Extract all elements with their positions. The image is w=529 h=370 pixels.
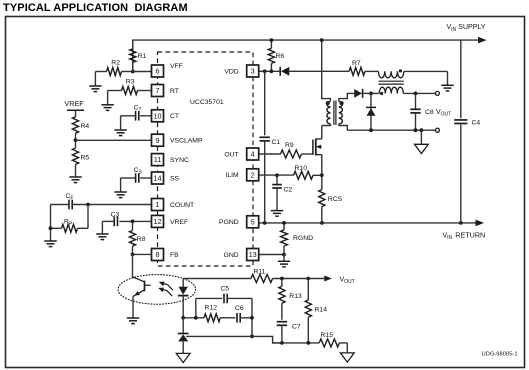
- ground bias winding: [441, 85, 453, 91]
- label R3: [126, 78, 135, 85]
- ground CS: [114, 192, 126, 198]
- resistor R2: [95, 68, 132, 76]
- junction RGND top: [282, 221, 286, 225]
- junction D3 top: [369, 92, 373, 96]
- node pin 3 VDD: [247, 65, 259, 77]
- node pin 5 PGND: [247, 216, 259, 228]
- svg-text:VREF: VREF: [65, 99, 85, 108]
- wire bottom rail: [273, 342, 320, 344]
- capacitor CS: [121, 173, 152, 183]
- node pin 13 GND: [247, 249, 259, 261]
- capacitor C8: [410, 93, 420, 130]
- node pin 4 OUT: [247, 148, 259, 160]
- svg-text:5: 5: [251, 217, 255, 226]
- svg-text:PGND: PGND: [219, 219, 239, 226]
- node pin 10 CT: [152, 110, 164, 122]
- wire drain up: [321, 126, 323, 140]
- resistor R5: [72, 148, 78, 164]
- inductor L1 top winding: [378, 71, 403, 77]
- node pin 6 VFF: [152, 65, 164, 77]
- svg-text:R2: R2: [111, 59, 120, 66]
- junction C1 top: [263, 69, 267, 73]
- label R11: [254, 269, 266, 276]
- capacitor CT: [121, 111, 152, 121]
- svg-text:CT: CT: [134, 104, 142, 113]
- title text: [3, 2, 188, 14]
- junction source/R10: [320, 173, 324, 177]
- node pin 7 RT: [152, 85, 164, 97]
- svg-text:RP: RP: [64, 219, 73, 228]
- inductor L1 core: [378, 81, 403, 84]
- ground C2: [271, 211, 283, 217]
- label R8: [137, 236, 146, 243]
- svg-text:C5: C5: [221, 285, 230, 292]
- svg-text:R5: R5: [81, 155, 90, 162]
- svg-text:CT: CT: [170, 113, 179, 120]
- svg-text:VREF: VREF: [170, 219, 188, 226]
- label CF: [66, 193, 74, 202]
- svg-text:TYPICAL APPLICATION DIAGRAM: TYPICAL APPLICATION DIAGRAM: [3, 2, 188, 14]
- wire R5 down: [75, 164, 77, 177]
- capacitor C4: [454, 40, 467, 223]
- junction C1 bottom: [263, 221, 267, 225]
- svg-text:VIN: VIN: [443, 232, 453, 241]
- junction C5 left: [194, 316, 198, 320]
- svg-text:R11: R11: [254, 269, 266, 276]
- svg-text:R9: R9: [285, 142, 294, 149]
- capacitor C1: [260, 71, 270, 223]
- label RGND: [293, 235, 313, 242]
- label R13: [289, 293, 302, 300]
- resistor R14: [305, 279, 311, 343]
- svg-text:C6: C6: [235, 305, 244, 312]
- inductor L1 dots: [380, 69, 402, 95]
- capacitor C6: [220, 313, 252, 323]
- label R1: [138, 53, 147, 60]
- svg-text:RETURN: RETURN: [455, 230, 485, 239]
- resistor R3: [108, 87, 152, 95]
- U1 label UCC35701: [190, 99, 224, 106]
- svg-text:R12: R12: [205, 305, 218, 312]
- node pin 2 ILIM: [247, 169, 259, 181]
- svg-text:VFF: VFF: [170, 63, 183, 70]
- wire VOUT arrow: [308, 276, 332, 282]
- svg-text:ILIM: ILIM: [225, 172, 239, 179]
- label R4: [81, 123, 90, 130]
- capacitor C7: [277, 322, 287, 343]
- label C7: [292, 324, 301, 331]
- wire top rail VIN supply: [133, 40, 482, 71]
- wire ILIM pin: [259, 174, 294, 176]
- svg-text:RCS: RCS: [328, 196, 343, 203]
- inductor L1 bottom winding: [371, 87, 435, 93]
- transformer T1 core: [334, 101, 336, 125]
- node VOUT+ terminal: [435, 91, 439, 95]
- svg-text:C7: C7: [292, 324, 301, 331]
- wire C3 left down: [101, 221, 103, 234]
- svg-text:10: 10: [153, 111, 161, 120]
- transistor opto phototransistor: [133, 277, 151, 318]
- diode D1: [280, 67, 349, 76]
- resistor R6: [268, 40, 274, 71]
- junction C4 bottom: [459, 221, 463, 225]
- label R7: [352, 60, 361, 67]
- diode opto LED: [178, 279, 189, 318]
- node pin 1 COUNT: [152, 199, 164, 211]
- junction VSCLAMP divider: [74, 138, 78, 142]
- wire secondary bottom: [339, 124, 347, 130]
- opto light arrows: [158, 282, 173, 297]
- ground CT: [114, 130, 126, 136]
- svg-text:R10: R10: [295, 165, 308, 172]
- node VIN SUPPLY arrow: [478, 37, 487, 44]
- junction output gnd: [420, 128, 424, 132]
- junction D3 bottom: [369, 128, 373, 132]
- resistor R15: [319, 339, 347, 347]
- wire RP up to COUNT: [87, 205, 89, 229]
- svg-text:C8: C8: [425, 109, 434, 116]
- node pin 9 VSCLAMP: [152, 134, 164, 146]
- junction primary top rail: [320, 38, 324, 42]
- svg-text:SYNC: SYNC: [170, 157, 189, 164]
- svg-text:14: 14: [153, 174, 161, 183]
- label RP: [64, 219, 73, 228]
- label R10: [295, 165, 308, 172]
- junction RP left: [49, 226, 53, 230]
- label R12: [205, 305, 218, 312]
- svg-text:12: 12: [153, 217, 161, 226]
- label pin OUT: [224, 151, 238, 158]
- capacitor C5: [196, 294, 252, 304]
- svg-text:R13: R13: [289, 293, 302, 300]
- wire primary bottom: [322, 124, 331, 126]
- label pin VREF: [170, 219, 188, 226]
- junction FB/R8/opto: [131, 253, 135, 257]
- svg-text:4: 4: [251, 150, 255, 159]
- svg-text:SUPPLY: SUPPLY: [458, 24, 485, 31]
- diode U3 TL431: [178, 318, 189, 354]
- resistor R13: [279, 279, 285, 320]
- svg-text:R3: R3: [126, 78, 135, 85]
- resistor R1: [130, 40, 136, 71]
- junction C7 bottom: [280, 341, 284, 345]
- wire output bottom rail: [347, 129, 435, 131]
- wire LED to R12: [183, 317, 204, 319]
- svg-text:8: 8: [155, 250, 159, 259]
- wire C5 branch up: [195, 298, 197, 317]
- svg-text:11: 11: [154, 155, 162, 164]
- svg-text:FB: FB: [170, 252, 179, 259]
- label pin FB: [170, 252, 179, 259]
- label pin CT: [170, 113, 179, 120]
- op-amp U1 UCC35701 dashed outline: [158, 52, 254, 266]
- wire CT down: [120, 116, 122, 130]
- svg-text:R8: R8: [137, 236, 146, 243]
- node pin 12 VREF: [152, 215, 164, 227]
- junction ref node: [250, 335, 254, 339]
- svg-text:R14: R14: [315, 307, 328, 314]
- svg-text:R6: R6: [276, 53, 285, 60]
- wire C5 branch down: [251, 298, 253, 336]
- label R5: [81, 155, 90, 162]
- ground opto emitter: [127, 318, 139, 324]
- svg-text:RT: RT: [170, 88, 179, 95]
- label pin SYNC: [170, 157, 189, 164]
- label R6: [276, 53, 285, 60]
- diode D2: [354, 89, 371, 98]
- svg-text:1: 1: [155, 200, 159, 209]
- svg-text:VIN: VIN: [447, 24, 457, 33]
- junction R1/R2/pin6: [131, 70, 135, 74]
- label R2: [111, 59, 120, 66]
- resistor RGND: [281, 223, 288, 255]
- label pin COUNT: [170, 202, 194, 209]
- wire R15 to ground: [346, 343, 348, 353]
- svg-text:7: 7: [155, 86, 159, 95]
- label pin VFF: [170, 63, 183, 70]
- wire output ground stub: [420, 130, 422, 144]
- svg-text:3: 3: [251, 67, 255, 76]
- junction C8 bottom: [414, 128, 418, 132]
- wire R2 left down: [94, 72, 96, 87]
- diode D3: [366, 93, 376, 130]
- resistor R11: [183, 275, 308, 283]
- junction C6 right: [250, 316, 254, 320]
- label C2: [284, 186, 293, 193]
- node VREF terminal: [65, 99, 85, 110]
- svg-text:CF: CF: [66, 193, 74, 202]
- label R15: [321, 332, 334, 339]
- svg-text:COUNT: COUNT: [170, 202, 194, 209]
- node pin 8 FB: [152, 249, 164, 261]
- optocoupler U2 outline: [118, 275, 196, 305]
- svg-text:C2: C2: [284, 186, 293, 193]
- capacitor CF: [51, 200, 152, 210]
- label pin VSCLAMP: [170, 138, 203, 145]
- ground R2: [89, 86, 101, 92]
- resistor RP: [51, 224, 89, 232]
- junction VREF/R8: [131, 220, 135, 224]
- wire gnd stub: [283, 255, 285, 262]
- label pin GND: [224, 252, 239, 259]
- ground GND pin: [278, 261, 290, 267]
- junction C8 top: [414, 92, 418, 96]
- svg-text:VSCLAMP: VSCLAMP: [170, 138, 203, 145]
- node pin 14 SS: [152, 172, 164, 184]
- svg-text:GND: GND: [224, 252, 239, 259]
- label CS: [134, 167, 143, 176]
- svg-text:OUT: OUT: [224, 151, 238, 158]
- junction R6 top: [270, 38, 274, 42]
- ground R3: [101, 105, 113, 111]
- wire VIN RETURN rail: [259, 222, 480, 224]
- svg-text:VOUT: VOUT: [340, 276, 355, 285]
- svg-text:C3: C3: [111, 211, 120, 218]
- wire top winding to ground: [404, 71, 448, 85]
- label R14: [315, 307, 328, 314]
- ground TL431 chassis: [176, 353, 190, 362]
- ground C3: [96, 234, 108, 240]
- label C1: [272, 139, 281, 146]
- resistor R9: [259, 150, 313, 158]
- resistor R4: [72, 117, 78, 133]
- svg-text:6: 6: [155, 67, 159, 76]
- wire TL431 ref: [186, 336, 282, 343]
- ground R5: [69, 177, 81, 183]
- transformer T1 dots: [326, 101, 344, 105]
- wire CS down: [120, 178, 122, 192]
- svg-text:2: 2: [251, 170, 255, 179]
- doc number: [482, 352, 518, 358]
- label RCS: [328, 196, 343, 203]
- svg-text:VDD: VDD: [224, 68, 238, 75]
- label C8: [425, 109, 451, 118]
- wire secondary top: [339, 93, 354, 101]
- svg-text:C4: C4: [472, 120, 481, 127]
- junction R13 top: [280, 277, 284, 281]
- wire VDD pin: [259, 70, 280, 72]
- wire to pin 9 VSCLAMP: [76, 139, 152, 141]
- resistor R8: [129, 221, 135, 254]
- svg-text:13: 13: [249, 250, 257, 259]
- svg-text:R4: R4: [81, 123, 90, 130]
- wire primary top: [322, 40, 331, 101]
- capacitor C2: [272, 175, 282, 210]
- label VOUT bottom: [340, 276, 355, 285]
- svg-text:R1: R1: [138, 53, 147, 60]
- junction R14 bottom: [306, 341, 310, 345]
- node VIN RETURN arrow: [476, 220, 485, 227]
- wire FB: [133, 253, 152, 255]
- svg-text:UDG-98005-1: UDG-98005-1: [482, 352, 518, 358]
- label VIN RETURN: [443, 230, 486, 241]
- label pin RT: [170, 88, 179, 95]
- resistor R10: [294, 171, 322, 179]
- label pin SS: [170, 175, 180, 182]
- transformer T1 primary winding: [327, 102, 330, 124]
- junction LED cathode: [181, 316, 185, 320]
- junction RGND bottom: [282, 253, 286, 257]
- resistor RCS: [319, 175, 325, 223]
- junction COUNT/RP: [86, 203, 90, 207]
- svg-text:SS: SS: [170, 175, 180, 182]
- wire CF left down: [50, 205, 52, 242]
- svg-text:VOUT: VOUT: [436, 109, 451, 118]
- label C5: [221, 285, 230, 292]
- ground R15 chassis: [340, 353, 354, 362]
- node pin 11 SYNC: [152, 154, 164, 166]
- label CT: [134, 104, 142, 113]
- resistor R7: [349, 67, 378, 75]
- junction C2 top: [275, 173, 279, 177]
- label C4: [472, 120, 481, 127]
- transistor Q1 MOSFET: [313, 139, 322, 156]
- label C6: [235, 305, 244, 312]
- svg-text:RGND: RGND: [293, 235, 313, 242]
- label VIN SUPPLY: [447, 24, 486, 33]
- svg-text:UCC35701: UCC35701: [190, 99, 224, 106]
- wire source down: [321, 155, 323, 176]
- svg-text:9: 9: [155, 136, 159, 145]
- svg-text:C1: C1: [272, 139, 281, 146]
- svg-text:R15: R15: [321, 332, 334, 339]
- label pin ILIM: [225, 172, 239, 179]
- wire R3 left down: [107, 91, 109, 105]
- transformer T1 secondary winding: [339, 102, 342, 124]
- label pin VDD: [224, 68, 238, 75]
- label pin PGND: [219, 219, 239, 226]
- svg-text:R7: R7: [352, 60, 361, 67]
- resistor R12: [204, 314, 220, 322]
- node VOUT- terminal: [435, 128, 439, 132]
- capacitor C3: [102, 217, 151, 227]
- wire GND pin: [259, 254, 284, 256]
- ground CF: [44, 241, 56, 247]
- junction R14 top: [306, 277, 310, 281]
- label R9: [285, 142, 294, 149]
- wire R4-R5: [75, 133, 77, 148]
- ground output chassis: [415, 144, 429, 153]
- junction RCS bottom: [320, 221, 324, 225]
- wire VREF to R4: [75, 110, 77, 117]
- label C3: [111, 211, 120, 218]
- wire to pin 6: [133, 71, 152, 73]
- junction R6 bottom: [270, 69, 274, 73]
- wire FB down to opto collector: [132, 254, 134, 277]
